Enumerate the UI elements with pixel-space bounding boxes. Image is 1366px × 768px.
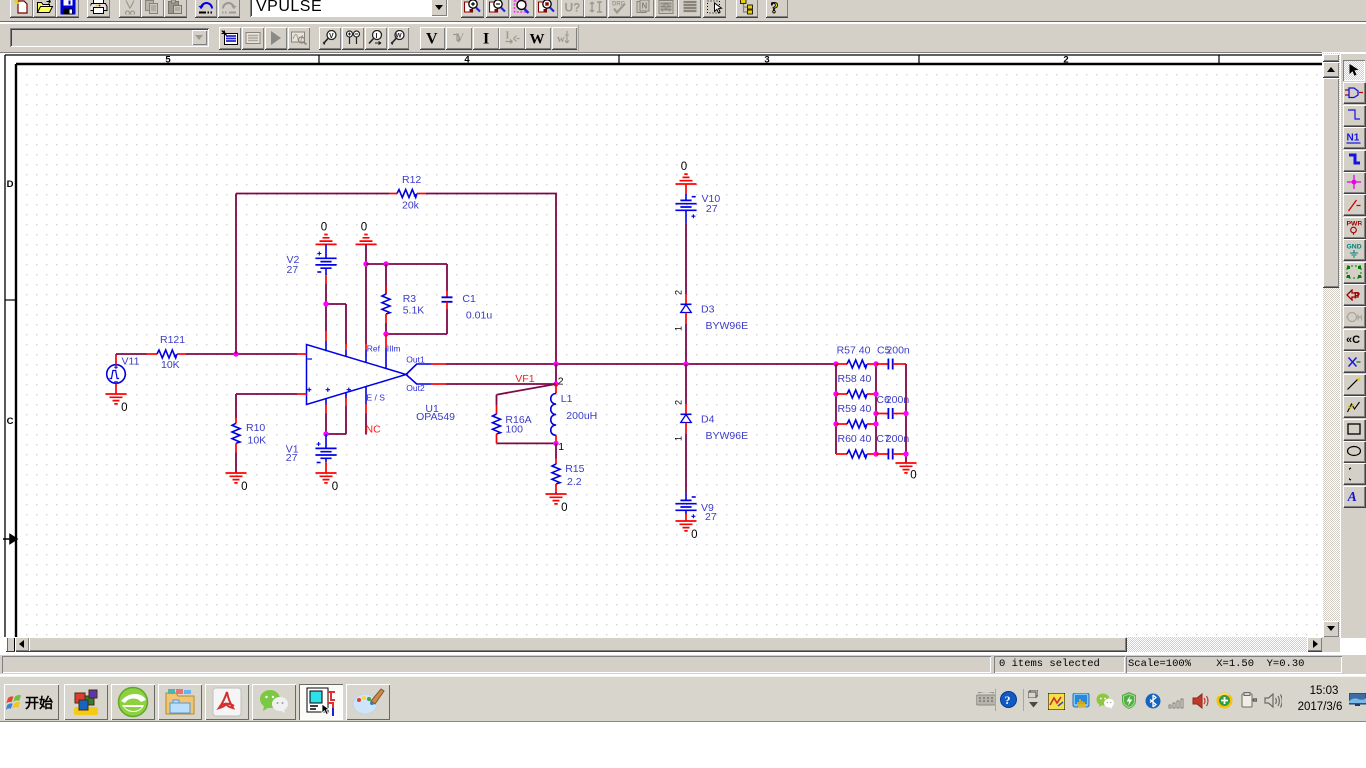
svg-text:I: I	[505, 31, 509, 42]
svg-text:2: 2	[1063, 55, 1068, 66]
ruler zone numbers	[165, 55, 1068, 66]
svg-text:C1: C1	[462, 293, 476, 305]
label C6 200n	[876, 394, 909, 406]
resistor R12	[389, 190, 426, 198]
pin op-amp Out2	[406, 375, 446, 385]
canvas	[0, 52, 1322, 637]
resistor R121	[147, 350, 187, 358]
svg-text:GND: GND	[1347, 243, 1362, 250]
svg-text:«C: «C	[1346, 334, 1360, 345]
svg-text:100: 100	[505, 423, 523, 435]
svg-text:R60 40: R60 40	[838, 433, 872, 445]
ground 0 below R15	[546, 494, 568, 514]
vertical scrollbar	[1323, 53, 1340, 638]
svg-text:27: 27	[286, 452, 298, 464]
pin V11 bottom	[115, 383, 117, 394]
VPULSE combo	[250, 0, 448, 17]
taskbar	[0, 676, 1366, 722]
junction right bus c7	[903, 451, 908, 456]
junction left bus r59	[833, 421, 838, 426]
status bar	[0, 655, 1366, 674]
svg-text:D4: D4	[701, 413, 715, 425]
wire V2 to pins	[326, 284, 346, 344]
label C7 200n	[876, 433, 909, 445]
ground 0 above Ref	[356, 221, 377, 244]
svg-text:3: 3	[764, 55, 769, 66]
resistor R15	[552, 443, 560, 494]
svg-text:R58 40: R58 40	[838, 373, 872, 385]
junction main-diode column	[683, 361, 688, 366]
svg-text:0: 0	[121, 402, 127, 414]
ground 0 below V11	[106, 394, 128, 414]
wire left bus	[835, 364, 837, 454]
pin op-amp E/S	[365, 387, 367, 404]
wire node2 to R16A diagonal	[497, 384, 557, 395]
svg-text:A: A	[1348, 490, 1357, 503]
page outer border	[5, 55, 1322, 637]
junction mid bus r60	[873, 451, 878, 456]
svg-text:10K: 10K	[161, 359, 180, 371]
svg-text:Ref: Ref	[367, 343, 381, 353]
svg-text:D3: D3	[701, 303, 715, 315]
junction V2 node	[323, 301, 328, 306]
svg-text:w: w	[557, 33, 565, 45]
svg-text:N1: N1	[1347, 132, 1360, 143]
svg-text:NC: NC	[366, 423, 382, 435]
svg-text:R121: R121	[160, 334, 185, 346]
wire ground to Ref	[365, 244, 367, 344]
svg-text:27: 27	[706, 203, 718, 215]
wire output main	[446, 363, 836, 365]
app buttons	[64, 684, 108, 720]
ground 0 above V2	[316, 221, 337, 244]
svg-text:R15: R15	[565, 463, 584, 475]
svg-text:?: ?	[770, 0, 778, 15]
wire out2	[446, 383, 556, 385]
svg-text:27: 27	[705, 511, 717, 523]
svg-text:0: 0	[681, 161, 687, 173]
battery V1	[315, 434, 336, 463]
junction inverting node	[233, 351, 238, 356]
svg-text:R12: R12	[402, 174, 421, 186]
op-amp minus mark	[308, 358, 313, 360]
svg-text:L1: L1	[561, 393, 573, 405]
svg-text:H: H	[1357, 313, 1362, 322]
svg-text:2.2: 2.2	[567, 476, 582, 488]
svg-text:27: 27	[287, 264, 299, 276]
svg-text:R10: R10	[246, 422, 265, 434]
clock	[1294, 685, 1354, 699]
svg-text:0: 0	[332, 481, 338, 493]
svg-text:OPA549: OPA549	[416, 411, 455, 423]
svg-text:R3: R3	[403, 293, 417, 305]
capacitor C7	[876, 449, 906, 460]
svg-text:0.01u: 0.01u	[466, 310, 492, 322]
off-page arrow marker	[3, 535, 17, 544]
pin op-amp V+ top left	[325, 331, 327, 341]
svg-text:BYW96E: BYW96E	[706, 320, 749, 332]
svg-text:2: 2	[674, 290, 684, 295]
pin V9 bottom	[685, 514, 687, 521]
svg-text:0: 0	[321, 221, 327, 233]
wire R121 to op-amp	[186, 353, 297, 355]
svg-text:20k: 20k	[402, 200, 420, 212]
op-amp plus marks	[307, 388, 351, 392]
wire Ref node to R3	[366, 263, 447, 265]
pin op-amp Out1	[406, 364, 446, 375]
wire R16A bottom to node1	[497, 442, 557, 444]
page inner frame	[16, 64, 1322, 637]
svg-text:V: V	[329, 33, 334, 40]
pin op-amp inverting input	[297, 353, 307, 355]
wire V11 to R121	[116, 353, 147, 355]
resistor R60	[836, 450, 876, 458]
junction mid bus c6	[873, 411, 878, 416]
diode D4	[681, 404, 692, 433]
ground 0 above V10	[676, 161, 697, 184]
svg-text:E / S: E / S	[367, 393, 386, 403]
resistor R59	[836, 420, 876, 428]
ground 0 below V9	[676, 521, 698, 541]
wire plus input	[236, 394, 297, 418]
svg-text:I: I	[375, 33, 377, 40]
svg-text:1: 1	[674, 326, 684, 331]
resistor R57	[836, 360, 876, 368]
node 1	[553, 441, 558, 446]
junction left bus top	[833, 361, 838, 366]
label C5 200n	[877, 344, 910, 356]
pin op-amp non-inverting input	[297, 393, 307, 395]
junction R3 top	[383, 261, 388, 266]
tray	[976, 692, 996, 706]
wire feedback vertical	[235, 194, 237, 355]
resistor R16A	[493, 395, 501, 444]
svg-text:D: D	[7, 179, 14, 190]
svg-text:VF1: VF1	[515, 373, 534, 385]
svg-text:P: P	[1354, 290, 1360, 300]
svg-text:R57 40: R57 40	[837, 344, 871, 356]
pin op-amp bottom second	[345, 393, 347, 398]
svg-text:0: 0	[241, 481, 247, 493]
junction right bus c6	[903, 411, 908, 416]
svg-text:V: V	[426, 31, 438, 46]
capacitor C5	[876, 359, 906, 370]
svg-text:N: N	[641, 1, 647, 10]
svg-text:PWR: PWR	[1347, 221, 1362, 228]
junction feedback-output	[553, 361, 558, 366]
ground 0 below V1	[316, 473, 339, 493]
svg-text:Out1: Out1	[406, 355, 425, 365]
wire D4 to V9	[685, 433, 687, 493]
toolbar row 2	[0, 23, 1366, 52]
pin V11 top	[115, 354, 117, 365]
junction V1 node	[323, 431, 328, 436]
junction Ref node	[363, 261, 368, 266]
pin op-amp Ilim	[385, 334, 387, 348]
diode D3	[681, 294, 692, 323]
svg-text:200uH: 200uH	[566, 410, 597, 422]
wire R3 C1 bottom	[386, 333, 447, 335]
wire feedback top right	[426, 194, 556, 365]
ground 0 below right bus	[896, 463, 917, 481]
svg-text:W: W	[529, 32, 544, 46]
inductor L1	[551, 384, 556, 443]
ground 0 below R10	[226, 473, 248, 493]
svg-text:0: 0	[361, 221, 367, 233]
wire mid bus	[875, 364, 877, 454]
grid dots	[20, 67, 1322, 637]
svg-text:4: 4	[464, 55, 470, 66]
wire out1-out2 link	[555, 364, 557, 384]
resistor R10	[232, 418, 240, 453]
resistor R58	[836, 390, 876, 398]
battery V2	[315, 244, 336, 275]
wire V- pins to V1	[326, 406, 346, 434]
battery V10	[675, 184, 696, 223]
svg-text:2: 2	[674, 400, 684, 405]
toolbar row 1	[0, 0, 1366, 22]
resistor R3	[382, 264, 390, 334]
svg-text:V11: V11	[122, 355, 140, 367]
wire main to D4	[685, 364, 687, 404]
svg-text:5.1K: 5.1K	[403, 305, 425, 317]
junction mid bus top	[873, 361, 878, 366]
pin op-amp V- bottom left	[325, 399, 327, 405]
node 2	[553, 381, 558, 386]
svg-text:I: I	[483, 31, 489, 46]
wire feedback top left	[236, 193, 389, 195]
tool palette	[1340, 53, 1366, 638]
svg-text:1: 1	[558, 441, 564, 453]
voltage source V11	[107, 365, 126, 384]
disabled combo	[10, 28, 209, 47]
pin V1 bottom	[325, 462, 327, 473]
pin op-amp top second	[345, 344, 347, 350]
wire D3 to main	[685, 323, 687, 364]
svg-text:?: ?	[1005, 693, 1011, 707]
svg-text:5: 5	[165, 55, 171, 66]
svg-text:W: W	[396, 33, 403, 40]
svg-text:0: 0	[691, 529, 697, 541]
junction mid bus r58	[873, 391, 878, 396]
svg-text:R59 40: R59 40	[838, 403, 872, 415]
capacitor C6	[876, 408, 906, 419]
svg-text:200n: 200n	[886, 344, 910, 356]
tray icons	[1048, 693, 1065, 710]
svg-text:0: 0	[910, 469, 916, 481]
junction mid bus r59	[873, 421, 878, 426]
wire R10 to ground	[235, 453, 237, 474]
svg-text:1: 1	[674, 436, 684, 441]
wire right bus	[905, 364, 907, 463]
svg-text:0: 0	[561, 502, 567, 514]
svg-text:10K: 10K	[248, 434, 267, 446]
wire E/S dangling	[365, 414, 367, 435]
wire V10 to D3	[685, 223, 687, 294]
svg-text:2: 2	[558, 375, 564, 387]
junction Ilim node	[383, 331, 388, 336]
svg-text:U?: U?	[565, 0, 580, 13]
svg-text:BYW96E: BYW96E	[706, 430, 749, 442]
pin V2 bottom	[325, 275, 327, 284]
capacitor C1	[442, 264, 453, 334]
start button	[4, 684, 59, 720]
junction left bus r58	[833, 391, 838, 396]
svg-text:C: C	[7, 416, 14, 427]
svg-text:IIlm: IIlm	[387, 343, 401, 353]
op-amp U1 triangle	[307, 345, 407, 405]
pin op-amp Ref	[365, 344, 367, 350]
battery V9	[675, 494, 696, 519]
horizontal scrollbar	[0, 637, 1322, 652]
